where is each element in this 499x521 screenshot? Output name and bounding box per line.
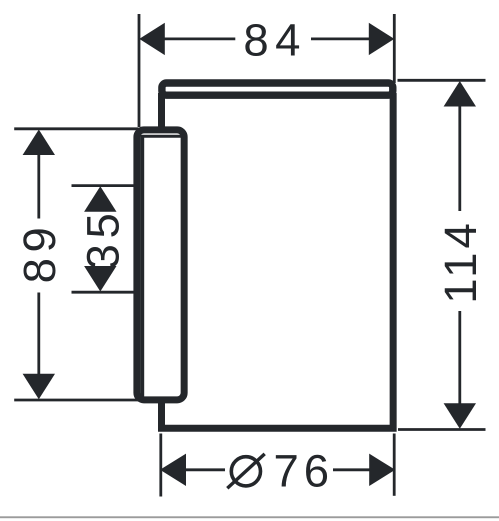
svg-text:114: 114 <box>435 219 486 304</box>
dim 76 label <box>273 445 334 496</box>
dim 35 extension line top <box>72 184 137 187</box>
dim 84 line left segment <box>164 38 235 41</box>
top rim <box>162 83 393 95</box>
dim 76 extension line left <box>159 434 162 497</box>
dim 114 label <box>435 219 486 304</box>
dim 114 line upper segment <box>458 105 461 211</box>
dim 84 line right segment <box>311 38 371 41</box>
dim 35 extension line bottom <box>72 291 137 294</box>
dim 89 extension line top <box>14 127 138 130</box>
dim 114 arrow up <box>444 81 476 107</box>
main body <box>162 93 394 428</box>
dim 84 arrow right <box>369 23 395 55</box>
dim 89 arrow down <box>23 374 55 400</box>
dim 84 extension line right <box>393 14 396 83</box>
dim 89 arrow up <box>23 130 55 156</box>
svg-text:35: 35 <box>78 208 129 270</box>
svg-text:84: 84 <box>243 15 307 66</box>
wall plate inner top line <box>141 135 185 138</box>
dim 35 arrow down <box>84 266 116 292</box>
dim 76 diameter symbol <box>227 454 264 488</box>
dim 76 line left segment <box>185 468 225 471</box>
dim 84 extension line left <box>138 14 141 127</box>
dim 89 line lower segment <box>37 293 40 378</box>
dim 76 arrow left <box>160 454 186 486</box>
dim 89 line upper segment <box>37 152 40 219</box>
bottom divider <box>0 516 499 518</box>
dim 76 line right segment <box>333 468 370 471</box>
dim 114 arrow down <box>444 403 476 429</box>
dim 89 label <box>14 222 65 284</box>
dim 84 label <box>243 15 307 66</box>
svg-text:76: 76 <box>273 445 334 496</box>
wall plate inner left line <box>140 136 144 399</box>
dim 35 label <box>78 208 129 270</box>
dim 76 extension line right <box>393 434 396 496</box>
dim 76 arrow right <box>369 454 395 486</box>
dim 114 line lower segment <box>458 311 461 404</box>
svg-text:89: 89 <box>14 222 65 284</box>
dim 114 extension line bottom <box>398 428 486 431</box>
wall plate <box>137 130 184 400</box>
dim 35 arrow up <box>84 186 116 212</box>
dim 89 extension line bottom <box>14 399 138 402</box>
dim 114 extension line top <box>398 79 486 82</box>
dim 84 arrow left <box>139 23 165 55</box>
